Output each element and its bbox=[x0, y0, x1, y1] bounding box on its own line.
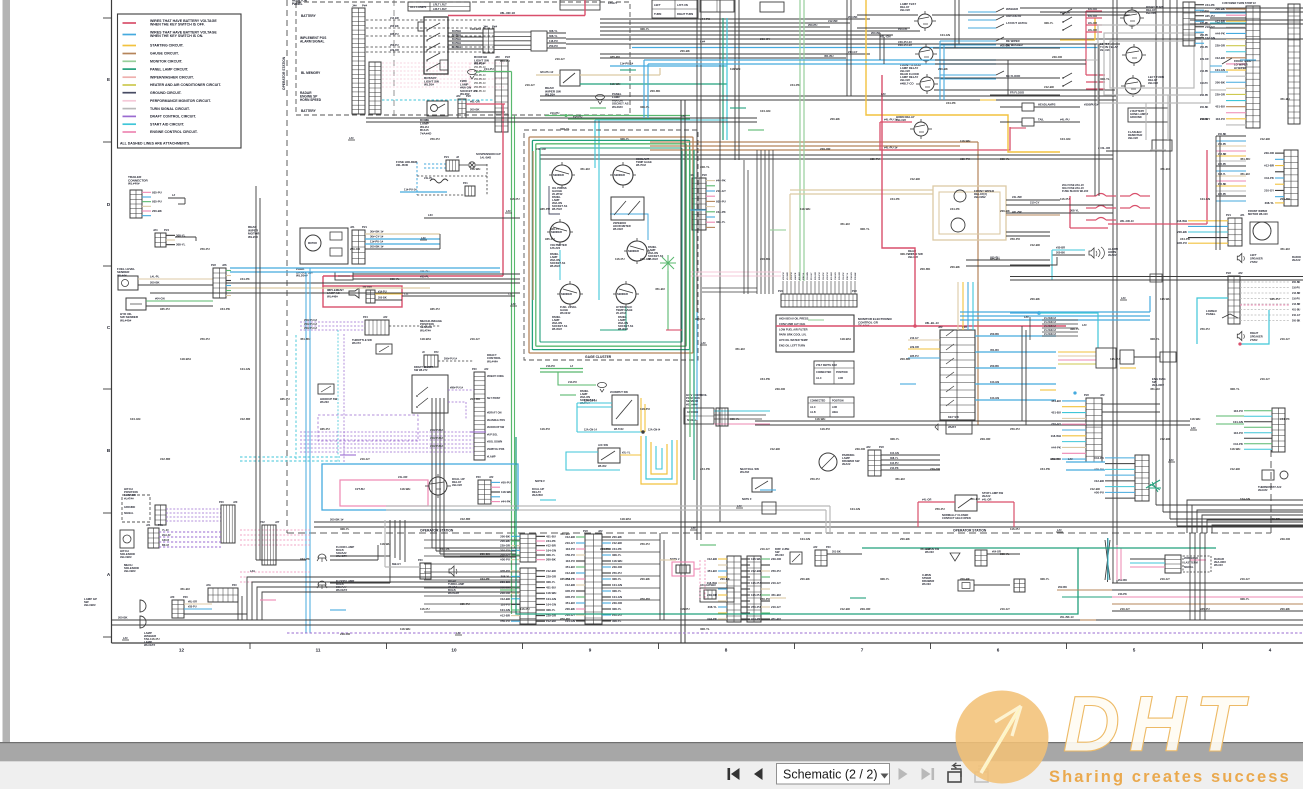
svg-text:200-BK: 200-BK bbox=[470, 108, 479, 112]
svg-text:210-GY: 210-GY bbox=[1280, 337, 1290, 341]
legend entry bbox=[123, 131, 137, 133]
left harness riser pair bbox=[305, 272, 307, 633]
tail switch row bbox=[1000, 121, 1022, 123]
headlamp switch rows bbox=[1000, 106, 1022, 108]
svg-text:WL#0#: WL#0# bbox=[598, 464, 607, 468]
diff lube connector bbox=[815, 550, 827, 566]
svg-text:116-PU: 116-PU bbox=[510, 197, 520, 201]
svg-text:P#4: P#4 bbox=[363, 315, 368, 319]
blue riser right cluster bbox=[939, 41, 941, 100]
svg-text:229-OR: 229-OR bbox=[612, 601, 622, 605]
svg-text:P#1: P#1 bbox=[463, 181, 468, 185]
svg-text:#12-BR: #12-BR bbox=[240, 417, 251, 421]
svg-text:CUSTOMER TERM STRIP #2: CUSTOMER TERM STRIP #2 bbox=[1222, 2, 1256, 5]
re flood switch rows bbox=[940, 74, 996, 76]
svg-text:116-PU: 116-PU bbox=[751, 581, 761, 585]
right big ladder bbox=[1086, 398, 1102, 462]
svg-text:104-GN: 104-GN bbox=[940, 33, 950, 37]
svg-text:#12-BR: #12-BR bbox=[1218, 153, 1227, 156]
svg-text:#44-PK: #44-PK bbox=[1051, 445, 1062, 449]
turn lamp tables bbox=[652, 0, 698, 18]
svg-text:#50-PU-1#: #50-PU-1# bbox=[474, 78, 486, 81]
re wiper switch rows bbox=[940, 40, 996, 42]
left turn relay bbox=[1125, 78, 1141, 94]
svg-text:#44-PK: #44-PK bbox=[751, 617, 762, 621]
svg-text:AIR CHGTR: AIR CHGTR bbox=[1006, 14, 1021, 18]
upper ground bus pair bbox=[366, 117, 757, 119]
svg-text:BL MEMORY: BL MEMORY bbox=[301, 71, 321, 75]
start aid teal risers bbox=[722, 18, 724, 140]
upper right corner ladders bbox=[1183, 2, 1195, 46]
svg-text:200-BK: 200-BK bbox=[720, 577, 731, 581]
bottom ladder B bbox=[585, 534, 602, 624]
coolant temp gauge G2 bbox=[613, 165, 633, 185]
svg-text:935-PU: 935-PU bbox=[695, 317, 705, 321]
svg-text:#12-BR: #12-BR bbox=[1292, 292, 1301, 295]
svg-text:308-YL: 308-YL bbox=[860, 227, 870, 231]
svg-text:116-PU: 116-PU bbox=[1110, 357, 1120, 361]
flood lamp riser bundle bbox=[389, 520, 391, 556]
hazard connector cluster bbox=[672, 562, 694, 576]
svg-text:210-GY: 210-GY bbox=[760, 547, 770, 551]
svg-text:J##: J## bbox=[866, 445, 871, 449]
gauge cluster connector ladder bbox=[692, 178, 706, 230]
legend entry bbox=[123, 115, 137, 117]
svg-text:200-BK: 200-BK bbox=[1200, 106, 1209, 109]
rear wiper motor wires bbox=[365, 233, 440, 235]
gauge brown bus horizontal bbox=[650, 141, 978, 143]
svg-text:RIGHT: RIGHT bbox=[1250, 331, 1259, 335]
svg-text:118-WH: 118-WH bbox=[707, 581, 717, 585]
svg-text:451-BU: 451-BU bbox=[830, 272, 833, 280]
svg-text:#12-BR: #12-BR bbox=[565, 571, 575, 575]
svg-text:L##: L## bbox=[123, 636, 128, 640]
svg-text:SENDER: SENDER bbox=[561, 292, 572, 296]
operator station dashed vertical boundary bbox=[286, 0, 288, 533]
svg-text:104-GN: 104-GN bbox=[834, 272, 837, 280]
fuel level sender bbox=[118, 276, 138, 290]
svg-text:#50#-PU-1#: #50#-PU-1# bbox=[304, 319, 318, 322]
svg-text:#0L-BK-1#: #0L-BK-1# bbox=[1060, 615, 1074, 619]
svg-text:GROUND: GROUND bbox=[687, 411, 698, 414]
svg-text:#T20#: #T20# bbox=[1250, 260, 1258, 264]
draft cyan dashed wires bbox=[240, 456, 340, 458]
draft purple risers bbox=[337, 330, 339, 462]
svg-text:118-WH: 118-WH bbox=[180, 357, 191, 361]
svg-text:#HANDLE POS: #HANDLE POS bbox=[487, 419, 505, 422]
svg-text:451-BU: 451-BU bbox=[840, 222, 850, 226]
svg-text:935-PU: 935-PU bbox=[1094, 467, 1104, 471]
computer switch box bbox=[612, 395, 638, 425]
svg-text:200-BK: 200-BK bbox=[960, 577, 971, 581]
svg-text:451-BU: 451-BU bbox=[565, 565, 575, 569]
svg-text:104-GN: 104-GN bbox=[240, 367, 250, 371]
svg-text:118-WH: 118-WH bbox=[807, 272, 809, 280]
svg-text:200-BK: 200-BK bbox=[546, 558, 557, 562]
svg-text:L##: L## bbox=[349, 136, 354, 140]
draft chart box bbox=[412, 375, 448, 413]
green right links bbox=[1146, 480, 1160, 488]
svg-text:J##: J## bbox=[352, 4, 357, 8]
svg-text:229-OR: 229-OR bbox=[855, 447, 865, 451]
svg-text:LRLT LRLT: LRLT LRLT bbox=[433, 7, 447, 11]
rear wiper tan wires bbox=[536, 74, 560, 76]
toolbar page select field bbox=[777, 764, 890, 785]
wiper feed pair extension bbox=[933, 154, 1113, 156]
svg-text:451-BU: 451-BU bbox=[798, 272, 801, 280]
flood lamp bulb 1 bbox=[318, 554, 326, 558]
svg-text:116-PU: 116-PU bbox=[1292, 298, 1300, 301]
svg-text:#44-PK: #44-PK bbox=[716, 210, 727, 214]
svg-text:POSITION: POSITION bbox=[832, 400, 844, 403]
svg-text:#44-PK: #44-PK bbox=[1200, 70, 1208, 73]
svg-text:200-BK: 200-BK bbox=[500, 534, 511, 538]
svg-text:308-YL: 308-YL bbox=[730, 417, 740, 421]
upper right stub wires bbox=[1210, 7, 1246, 9]
svg-text:200-BK: 200-BK bbox=[1177, 230, 1188, 234]
svg-text:#12-BR: #12-BR bbox=[1160, 437, 1170, 441]
svg-text:229-OR: 229-OR bbox=[980, 437, 991, 441]
wiper washer switch cluster bbox=[968, 11, 996, 13]
drawing border frame bbox=[111, 0, 113, 643]
svg-text:J##: J## bbox=[484, 367, 489, 371]
svg-text:210-GY: 210-GY bbox=[525, 83, 535, 87]
toolbar last page button disabled bbox=[922, 768, 931, 780]
svg-text:210-GY: 210-GY bbox=[360, 457, 370, 461]
svg-text:308-YL: 308-YL bbox=[1000, 157, 1010, 161]
svg-text:118-WH: 118-WH bbox=[730, 67, 740, 71]
svg-text:WL#G#: WL#G# bbox=[474, 62, 485, 66]
svg-text:LOD: LOD bbox=[832, 406, 837, 409]
left harness bundle wires bbox=[230, 267, 500, 269]
svg-text:WL20#: WL20# bbox=[248, 235, 258, 239]
transmission colored risers bbox=[957, 282, 959, 330]
svg-text:308-YL: 308-YL bbox=[612, 619, 622, 623]
svg-text:HIGH BEAU OIL PRESS: HIGH BEAU OIL PRESS bbox=[779, 317, 809, 321]
svg-text:SENDER: SENDER bbox=[553, 173, 564, 177]
svg-text:#44-PK: #44-PK bbox=[1180, 237, 1191, 241]
svg-text:P#1: P#1 bbox=[158, 523, 163, 527]
relay feed verticals bbox=[954, 0, 956, 48]
svg-text:E: E bbox=[107, 77, 110, 82]
right mid blue risers bbox=[1149, 296, 1151, 312]
cab dashed vertical boundary bbox=[393, 0, 395, 120]
rear flood lamp relay bbox=[920, 77, 934, 91]
svg-text:118-WH: 118-WH bbox=[815, 417, 825, 421]
svg-text:SIGNAL: SIGNAL bbox=[124, 512, 134, 515]
svg-text:#EL#9##: #EL#9## bbox=[84, 603, 96, 607]
engine battery crimson riser bbox=[882, 75, 915, 326]
lamp gp wires bbox=[184, 603, 212, 605]
svg-text:#44-PK: #44-PK bbox=[1215, 31, 1226, 35]
svg-text:J#6: J#6 bbox=[222, 263, 227, 267]
horn relay battery loop bbox=[880, 122, 1010, 150]
svg-text:118-WH: 118-WH bbox=[960, 139, 970, 143]
svg-text:L##: L## bbox=[1024, 315, 1029, 319]
wiper feed pair bbox=[540, 154, 933, 156]
svg-text:#1-#GR-1#: #1-#GR-1# bbox=[1044, 317, 1057, 320]
hi lo switch table bbox=[808, 397, 854, 417]
svg-text:210-GY: 210-GY bbox=[811, 272, 813, 280]
svg-text:200#-PU-1#: 200#-PU-1# bbox=[444, 358, 458, 361]
draft sensor connector bbox=[365, 320, 389, 335]
radio dashed outputs bbox=[1240, 281, 1290, 283]
svg-text:L##: L## bbox=[681, 114, 686, 118]
svg-text:116-PU: 116-PU bbox=[420, 607, 430, 611]
speedo hour meter switch bbox=[611, 197, 644, 220]
implement lamp battery loop bbox=[323, 275, 503, 277]
svg-text:210-GY: 210-GY bbox=[771, 581, 781, 585]
svg-text:SIGNAL: SIGNAL bbox=[687, 419, 697, 422]
svg-text:935-PU: 935-PU bbox=[430, 307, 440, 311]
svg-text:#12-BR: #12-BR bbox=[160, 457, 171, 461]
svg-text:J#0: J#0 bbox=[170, 595, 175, 599]
svg-text:104-GN: 104-GN bbox=[546, 597, 556, 601]
draft chart dashed outputs bbox=[448, 389, 474, 391]
svg-text:#44-PK: #44-PK bbox=[1040, 467, 1051, 471]
svg-text:J#7: J#7 bbox=[275, 520, 280, 524]
rear wiper motor connector bbox=[352, 230, 365, 264]
svg-text:#50-PU: #50-PU bbox=[560, 617, 570, 621]
svg-text:J##: J## bbox=[938, 325, 943, 329]
svg-text:#12-BR: #12-BR bbox=[1215, 56, 1225, 60]
svg-text:#50-PU: #50-PU bbox=[500, 558, 510, 562]
svg-text:#44-PK: #44-PK bbox=[1264, 176, 1275, 180]
rear wiper motor box bbox=[300, 228, 348, 264]
mech pink dashed lower bbox=[240, 571, 310, 573]
svg-text:308-YL: 308-YL bbox=[501, 574, 511, 578]
monitor west wires bbox=[702, 287, 757, 289]
svg-text:200-BK: 200-BK bbox=[990, 332, 999, 336]
bottom ladder west feeds bbox=[424, 539, 520, 541]
svg-text:451-BU: 451-BU bbox=[707, 569, 717, 573]
blue bus top middle bbox=[644, 59, 996, 61]
svg-text:L#L-PL: L#L-PL bbox=[150, 275, 160, 279]
svg-text:P##: P## bbox=[583, 529, 588, 533]
crimson node bbox=[914, 325, 917, 328]
svg-text:200-BK: 200-BK bbox=[900, 537, 911, 541]
center risers 2 bbox=[696, 0, 698, 540]
bottom right merge node bbox=[1105, 538, 1110, 582]
ac switch bbox=[598, 448, 620, 463]
svg-text:308-YL: 308-YL bbox=[549, 29, 558, 33]
svg-text:SUSPENSION GP: SUSPENSION GP bbox=[476, 152, 501, 156]
lamp bundle verticals bbox=[241, 596, 243, 620]
svg-text:308-YL: 308-YL bbox=[890, 457, 899, 460]
svg-text:200-BK: 200-BK bbox=[378, 297, 387, 300]
svg-text:#44-PK: #44-PK bbox=[707, 617, 718, 621]
radio speakers connector bbox=[1228, 276, 1240, 324]
svg-text:#GA-##: #GA-## bbox=[162, 534, 171, 537]
top dark risers right bbox=[846, 0, 848, 96]
svg-text:#50-PU: #50-PU bbox=[390, 44, 399, 47]
svg-text:899-GY: 899-GY bbox=[392, 562, 401, 566]
svg-text:L#: L# bbox=[570, 364, 574, 368]
lamp harness grid bbox=[208, 588, 238, 602]
svg-text:#COMPUT SW: #COMPUT SW bbox=[610, 390, 628, 394]
svg-text:L##: L## bbox=[691, 526, 696, 530]
relay interconnects bbox=[879, 33, 881, 60]
svg-text:#44-PK: #44-PK bbox=[1200, 94, 1208, 97]
svg-text:229-OR: 229-OR bbox=[910, 346, 919, 349]
svg-text:L#GHT: L#GHT bbox=[608, 1, 617, 5]
svg-text:935-PU: 935-PU bbox=[540, 207, 550, 211]
svg-text:210-GY: 210-GY bbox=[640, 257, 650, 261]
svg-text:J#: J# bbox=[456, 155, 460, 159]
svg-text:210-GY: 210-GY bbox=[848, 50, 858, 54]
svg-text:#EL###: #EL### bbox=[452, 483, 462, 487]
svg-text:935-PU: 935-PU bbox=[1218, 193, 1226, 196]
svg-text:#EA##: #EA## bbox=[982, 494, 991, 498]
svg-text:451-BU: 451-BU bbox=[970, 497, 980, 501]
svg-text:GAGE CLUSTER: GAGE CLUSTER bbox=[585, 355, 612, 359]
svg-text:SENDER: SENDER bbox=[628, 249, 639, 253]
svg-text:229-OR: 229-OR bbox=[815, 272, 817, 280]
svg-text:12A-GN-14: 12A-GN-14 bbox=[584, 429, 597, 432]
park brake switch bbox=[335, 272, 353, 280]
svg-text:935-PU: 935-PU bbox=[320, 427, 330, 431]
bottom pair ladders right bbox=[727, 556, 741, 622]
svg-text:#44-PK: #44-PK bbox=[716, 179, 727, 183]
legend entry bbox=[123, 100, 137, 102]
svg-text:935-PU: 935-PU bbox=[990, 257, 1000, 261]
svg-text:210-GY: 210-GY bbox=[1200, 117, 1210, 121]
svg-text:308-YL: 308-YL bbox=[546, 580, 556, 584]
svg-text:WL704#: WL704# bbox=[636, 163, 646, 167]
svg-text:116-PU: 116-PU bbox=[823, 272, 825, 280]
viewer left gutter strip bbox=[3, 0, 11, 743]
right edge hatch ladder bbox=[1288, 4, 1300, 124]
svg-text:7#A##D: 7#A##D bbox=[420, 132, 432, 136]
svg-text:116-PU: 116-PU bbox=[565, 559, 575, 563]
svg-text:#35-PU: #35-PU bbox=[188, 606, 197, 609]
svg-text:210-GY: 210-GY bbox=[1160, 577, 1170, 581]
svg-text:200-BK: 200-BK bbox=[950, 265, 961, 269]
svg-text:#44-PK: #44-PK bbox=[300, 557, 311, 561]
svg-text:WIPER/WASHER CIRCUIT.: WIPER/WASHER CIRCUIT. bbox=[150, 75, 194, 79]
flood lamp wires bbox=[330, 555, 390, 557]
svg-text:#86#-PU-1#: #86#-PU-1# bbox=[450, 387, 464, 390]
svg-text:229-OR: 229-OR bbox=[1215, 92, 1225, 96]
svg-text:#TILT DEPTH SW#: #TILT DEPTH SW# bbox=[816, 364, 838, 367]
legend entry bbox=[123, 108, 137, 110]
bottom center risers bbox=[659, 533, 661, 620]
svg-text:935-PU: 935-PU bbox=[870, 157, 880, 161]
svg-text:308-YL: 308-YL bbox=[1070, 209, 1079, 213]
svg-text:BU/WH: BU/WH bbox=[452, 37, 461, 41]
svg-text:LRLT LRLT: LRLT LRLT bbox=[433, 3, 447, 7]
svg-text:308-YL: 308-YL bbox=[1040, 577, 1050, 581]
eng diag cluster bbox=[1058, 351, 1096, 353]
svg-text:201-BK: 201-BK bbox=[832, 551, 841, 554]
svg-text:#2L-YL: #2L-YL bbox=[622, 452, 631, 455]
toolbar previous view icon bbox=[948, 772, 961, 782]
svg-text:118-WH: 118-WH bbox=[1230, 447, 1240, 451]
svg-text:LOW FUEL AIR FILTER: LOW FUEL AIR FILTER bbox=[779, 327, 808, 331]
gauge cluster inner elbows bbox=[549, 186, 560, 214]
svg-text:30#-GY-1#: 30#-GY-1# bbox=[370, 235, 384, 239]
svg-text:229-OR: 229-OR bbox=[340, 632, 350, 636]
svg-text:308-YL: 308-YL bbox=[612, 589, 622, 593]
phone node bbox=[1074, 392, 1076, 394]
svg-text:#EL###: #EL### bbox=[900, 8, 910, 12]
svg-text:SW WL#7#: SW WL#7# bbox=[414, 368, 428, 372]
suspension fuse holder dashed wires bbox=[424, 163, 446, 165]
svg-text:116-PU: 116-PU bbox=[843, 272, 845, 280]
svg-text:200-BK: 200-BK bbox=[680, 49, 691, 53]
svg-text:#8L-OR-1#: #8L-OR-1# bbox=[1120, 219, 1134, 223]
svg-text:118-WH: 118-WH bbox=[1051, 434, 1061, 438]
svg-text:200-BK: 200-BK bbox=[118, 616, 127, 620]
svg-text:L##: L## bbox=[1191, 426, 1196, 430]
svg-text:#SWITCH POS: #SWITCH POS bbox=[487, 448, 505, 451]
ac heater yellow nested bbox=[641, 436, 677, 484]
bottom right bundle bbox=[1112, 582, 1303, 584]
svg-text:104-GN: 104-GN bbox=[1200, 197, 1210, 201]
svg-text:# #4L-OR: # #4L-OR bbox=[1098, 146, 1110, 150]
cluster exit green wires bbox=[540, 368, 583, 370]
svg-text:104-GN: 104-GN bbox=[990, 380, 999, 384]
battery-on blue bus bbox=[632, 47, 1098, 49]
svg-text:#8L-OR: #8L-OR bbox=[188, 601, 197, 604]
svg-text:WL#4#: WL#4# bbox=[117, 273, 127, 277]
bottom ladder A lower bbox=[520, 568, 536, 624]
svg-text:#50-PU-1#: #50-PU-1# bbox=[474, 82, 486, 85]
right risers group bbox=[1112, 0, 1114, 583]
radar signal blue loop bbox=[1010, 312, 1039, 314]
svg-text:104-GN: 104-GN bbox=[890, 452, 899, 455]
battery attachment dashed box bbox=[296, 2, 630, 115]
right mid connector feeds bbox=[1102, 403, 1160, 405]
svg-text:P##: P## bbox=[702, 173, 707, 177]
svg-text:#50-PU: #50-PU bbox=[751, 605, 761, 609]
svg-text:ENGINE CONTROL CIRCUIT.: ENGINE CONTROL CIRCUIT. bbox=[150, 130, 198, 134]
svg-text:#EL###: #EL### bbox=[1128, 136, 1138, 140]
svg-text:#44-PK: #44-PK bbox=[950, 207, 961, 211]
svg-text:104-GN: 104-GN bbox=[546, 602, 556, 606]
svg-text:WL#7##: WL#7## bbox=[420, 328, 431, 332]
svg-text:935-PU: 935-PU bbox=[716, 199, 726, 203]
svg-text:CONTACT HELD OPEN: CONTACT HELD OPEN bbox=[942, 516, 971, 520]
legend entry bbox=[123, 76, 137, 78]
svg-text:#12-BR: #12-BR bbox=[1030, 243, 1040, 247]
svg-text:MOTOR: MOTOR bbox=[308, 242, 317, 245]
dht watermark circle bbox=[956, 691, 1049, 784]
left junction connector P2 bbox=[213, 268, 226, 298]
svg-text:11: 11 bbox=[316, 648, 321, 653]
svg-text:#L#7##: #L#7## bbox=[124, 496, 134, 500]
svg-text:WASHER: WASHER bbox=[1006, 7, 1018, 11]
svg-text:P#0: P#0 bbox=[219, 500, 224, 504]
svg-text:451-BU: 451-BU bbox=[655, 287, 665, 291]
right turn lamp bbox=[449, 566, 454, 576]
right turn relay bbox=[1124, 10, 1140, 26]
svg-text:#44-PK: #44-PK bbox=[440, 547, 451, 551]
svg-text:Schematic (2 / 2): Schematic (2 / 2) bbox=[783, 768, 877, 782]
memory connector ladder right bbox=[495, 60, 508, 132]
svg-text:NOTE F: NOTE F bbox=[535, 479, 545, 483]
svg-text:HI WIPER: HI WIPER bbox=[1234, 66, 1247, 70]
svg-text:HIGH: HIGH bbox=[832, 411, 838, 414]
svg-text:#50-PU: #50-PU bbox=[935, 507, 945, 511]
svg-text:308-YL: 308-YL bbox=[1044, 21, 1054, 25]
svg-text:#50-PU: #50-PU bbox=[810, 477, 820, 481]
svg-text:116-PU: 116-PU bbox=[1215, 117, 1225, 121]
svg-text:GAUGE CIRCUIT.: GAUGE CIRCUIT. bbox=[150, 52, 179, 56]
svg-text:#4L-OR: #4L-OR bbox=[922, 498, 931, 502]
svg-text:451-BU: 451-BU bbox=[1160, 167, 1170, 171]
upper right small boxes bbox=[700, 0, 734, 12]
